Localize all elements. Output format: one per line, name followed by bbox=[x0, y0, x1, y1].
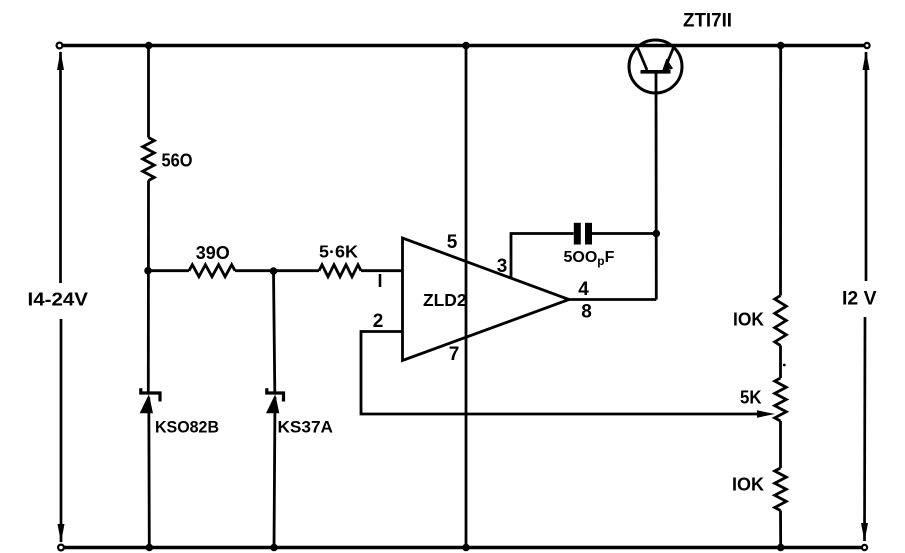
wire: op-amp output (pins 4/8) to transistor base vertical line bbox=[569, 298, 656, 301]
wire: bottom supply rail bbox=[63, 546, 862, 549]
node: junction of supply line on top rail bbox=[462, 42, 470, 50]
node: bottom-left terminal (open circle) bbox=[58, 545, 64, 551]
transistor Q ZT1711 (series pass, circle with base bar and emitter arrow) bbox=[629, 40, 682, 93]
svg-text:5OOpF: 5OOpF bbox=[564, 249, 615, 268]
op-amp ZLD2 (triangle) bbox=[403, 238, 570, 361]
svg-text:IOK: IOK bbox=[732, 475, 764, 495]
node: junction where KS37A branch taps the signal wire bbox=[270, 267, 278, 275]
wire: vertical branch through zener KS37A bbox=[274, 271, 276, 548]
node: junction of divider branch on bottom rail bbox=[777, 544, 785, 552]
svg-text:KSO82B: KSO82B bbox=[155, 418, 219, 437]
wire: top supply rail bbox=[62, 44, 864, 48]
wire: vertical branch from top rail through R 560 and zener KSO82B bbox=[148, 46, 149, 548]
wire: from capacitor right plate to transistor base line bbox=[592, 232, 656, 235]
svg-text:ZTI7II: ZTI7II bbox=[683, 11, 732, 32]
resistor R 560 (vertical zigzag) bbox=[143, 138, 155, 181]
svg-text:5: 5 bbox=[447, 232, 458, 253]
wire: op-amp pin 3 wire up to feedback capacitor bbox=[511, 234, 574, 278]
svg-text:5·6K: 5·6K bbox=[319, 242, 358, 262]
node: junction of 560-branch on top rail bbox=[145, 42, 153, 50]
node: junction where 390 feed wire meets 560/zener branch bbox=[144, 267, 152, 275]
svg-text:ZLD2: ZLD2 bbox=[423, 290, 467, 310]
wire: right voltage dimension line with arrowheads (12V) bbox=[861, 51, 870, 542]
resistor R 10K lower (vertical zigzag) bbox=[775, 468, 787, 511]
pin 1 label of op-amp bbox=[379, 274, 382, 287]
svg-text:7: 7 bbox=[449, 344, 460, 365]
svg-text:5K: 5K bbox=[740, 388, 762, 408]
diode: zener KSO82B symbol (cathode bar + filled triangle) bbox=[140, 388, 160, 413]
resistor R 5.6K (horizontal zigzag) bbox=[319, 265, 361, 277]
wire: op-amp supply line from top rail to bottom rail (pins 5 and 7) bbox=[465, 46, 468, 548]
node: junction of KSO82B branch on bottom rail bbox=[146, 544, 154, 552]
node: bottom-right terminal (open circle) bbox=[862, 545, 867, 550]
node: top-left input terminal (open circle) bbox=[57, 43, 63, 49]
svg-text:I2 V: I2 V bbox=[842, 288, 877, 310]
svg-text:39O: 39O bbox=[196, 243, 230, 263]
capacitor C 500pF (two plates) bbox=[577, 223, 588, 245]
svg-text:4: 4 bbox=[578, 279, 589, 300]
svg-text:8: 8 bbox=[581, 302, 592, 323]
node: junction of capacitor wire on base line bbox=[653, 230, 661, 238]
node: stray dot artifact right of divider line bbox=[783, 364, 786, 367]
svg-text:3: 3 bbox=[497, 256, 508, 277]
svg-text:2: 2 bbox=[373, 311, 384, 332]
wire: output divider branch from top rail through 10K / 5K pot / 10K bbox=[779, 46, 782, 548]
node: junction of KS37A branch on bottom rail bbox=[270, 544, 278, 552]
wire: left voltage dimension line with arrowheads (14-24V) bbox=[57, 51, 65, 543]
node: junction of supply line on bottom rail bbox=[462, 544, 470, 552]
svg-text:IOK: IOK bbox=[733, 310, 764, 330]
node: top-right output terminal (open circle) bbox=[864, 43, 869, 48]
node: junction of divider branch on top rail bbox=[777, 42, 785, 50]
svg-text:56O: 56O bbox=[162, 151, 193, 171]
resistor R 10K upper (vertical zigzag) bbox=[775, 296, 787, 346]
wire: op-amp pin 2 feedback wire down and across to potentiometer wiper bbox=[361, 332, 775, 418]
svg-text:KS37A: KS37A bbox=[278, 418, 334, 437]
svg-text:I4-24V: I4-24V bbox=[28, 289, 89, 310]
wire: transistor base vertical line bbox=[655, 72, 658, 300]
potentiometer R 5K (vertical zigzag with wiper arrow) bbox=[775, 378, 787, 421]
diode: zener KS37A symbol (cathode bar + filled triangle) bbox=[266, 388, 284, 413]
resistor R 390 (horizontal zigzag) bbox=[189, 265, 235, 277]
wire: horizontal signal wire from 560-branch through 390 and 5.6K into op-amp pin 1 bbox=[148, 269, 403, 272]
